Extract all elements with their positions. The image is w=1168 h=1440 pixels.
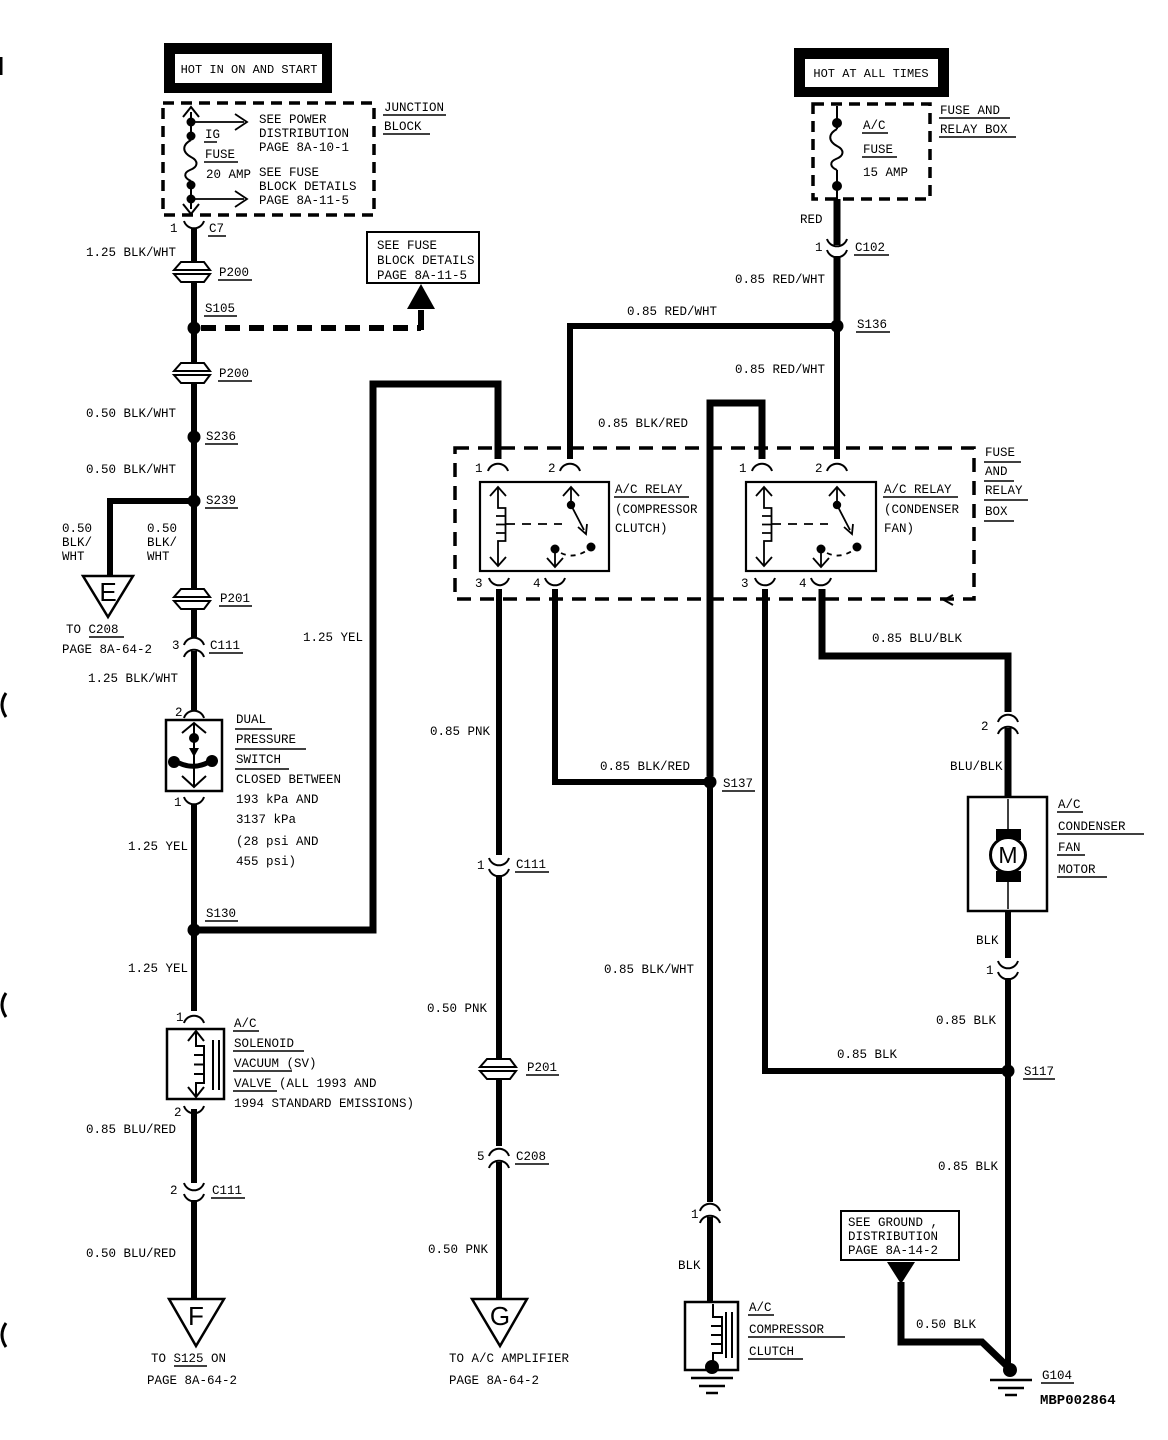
svg-text:A/C: A/C (1058, 798, 1081, 812)
svg-text:A/C RELAY: A/C RELAY (615, 483, 683, 497)
wire fuse to C102 RED (834, 199, 841, 245)
svg-text:PAGE 8A-64-2: PAGE 8A-64-2 (449, 1374, 539, 1388)
svg-text:(COMPRESSOR: (COMPRESSOR (615, 503, 698, 517)
off-page connector E (83, 576, 133, 617)
svg-text:3137 kPa: 3137 kPa (236, 813, 297, 827)
svg-text:PAGE 8A-11-5: PAGE 8A-11-5 (259, 194, 349, 208)
component label A/C RELAY (CONDENSER FAN) (883, 483, 960, 536)
wire C111 to pressure switch 1.25 BLK/WHT (191, 651, 197, 710)
svg-text:1.25 YEL: 1.25 YEL (128, 840, 188, 854)
wire 1.25 BLK/WHT C7 to P200 (191, 229, 197, 264)
A/C relay (compressor clutch) body (480, 482, 609, 571)
svg-text:0.50 BLU/RED: 0.50 BLU/RED (86, 1247, 176, 1261)
svg-text:0.85 RED/WHT: 0.85 RED/WHT (735, 273, 826, 287)
svg-text:SEE POWER: SEE POWER (259, 113, 327, 127)
fan motor connector pin 2 (981, 715, 1018, 734)
A/C relay (condenser fan) body (746, 482, 876, 571)
splice S117 (1002, 1065, 1056, 1080)
reference arrow down (887, 1262, 915, 1284)
wire C111 to F 0.50 BLU/RED (191, 1200, 197, 1301)
svg-text:C111: C111 (212, 1184, 242, 1198)
svg-text:DISTRIBUTION: DISTRIBUTION (848, 1230, 938, 1244)
svg-text:0.50 PNK: 0.50 PNK (427, 1002, 488, 1016)
wire label 0.50 BLK/WHT left (62, 522, 92, 564)
svg-text:C111: C111 (516, 858, 546, 872)
svg-text:RELAY BOX: RELAY BOX (940, 123, 1008, 137)
svg-text:S105: S105 (205, 302, 235, 316)
power label HOT IN ON AND START (164, 43, 332, 93)
svg-text:BLOCK DETAILS: BLOCK DETAILS (377, 254, 475, 268)
svg-text:0.50: 0.50 (147, 522, 177, 536)
A/C solenoid pin 1 (176, 1011, 204, 1025)
A/C solenoid pin 2 (174, 1106, 204, 1120)
svg-text:PRESSURE: PRESSURE (236, 733, 296, 747)
junction block label (383, 101, 446, 134)
svg-text:FUSE AND: FUSE AND (940, 104, 1000, 118)
svg-text:0.85 BLK: 0.85 BLK (936, 1014, 997, 1028)
svg-text:FAN): FAN) (884, 522, 914, 536)
wire C102 to S136 0.85 RED/WHT (834, 256, 841, 326)
svg-text:4: 4 (533, 577, 541, 591)
svg-text:S239: S239 (206, 494, 236, 508)
svg-text:HOT IN ON AND START: HOT IN ON AND START (181, 63, 318, 77)
note SEE POWER DISTRIBUTION PAGE 8A-10-1 (259, 113, 349, 155)
svg-text:S136: S136 (857, 318, 887, 332)
svg-text:0.50 BLK/WHT: 0.50 BLK/WHT (86, 463, 177, 477)
relay U1 pin 1 (475, 462, 508, 476)
svg-text:0.85 PNK: 0.85 PNK (430, 725, 491, 739)
wire S236 to S239 (191, 437, 197, 501)
svg-text:BLK/: BLK/ (147, 536, 177, 550)
wire ground note to G104 0.50 BLK (901, 1282, 1009, 1368)
wire S136 to relay 1 pin 2 0.85 RED/WHT (570, 326, 837, 459)
splice S105 (188, 302, 238, 335)
svg-text:0.85 RED/WHT: 0.85 RED/WHT (735, 363, 826, 377)
fuse A/C 15A element (830, 106, 842, 199)
svg-text:M: M (998, 842, 1017, 868)
svg-text:PAGE 8A-64-2: PAGE 8A-64-2 (147, 1374, 237, 1388)
svg-text:2: 2 (815, 462, 823, 476)
connector C102 pin 1 (815, 239, 889, 257)
svg-text:2: 2 (170, 1184, 178, 1198)
svg-text:2: 2 (175, 706, 183, 720)
svg-text:G: G (490, 1301, 510, 1331)
svg-text:BLK/: BLK/ (62, 536, 92, 550)
component label A/C COMPRESSOR CLUTCH (748, 1301, 845, 1359)
svg-text:0.85 BLU/BLK: 0.85 BLU/BLK (872, 632, 963, 646)
svg-text:P201: P201 (527, 1061, 557, 1075)
svg-text:0.50 BLK: 0.50 BLK (916, 1318, 977, 1332)
svg-text:COMPRESSOR: COMPRESSOR (749, 1323, 825, 1337)
wire P200 to S105 (191, 282, 197, 330)
svg-text:FUSE: FUSE (985, 446, 1015, 460)
fuse and relay box upper (dashed) (813, 104, 930, 199)
A/C compressor clutch (685, 1302, 738, 1374)
svg-text:1994 STANDARD EMISSIONS): 1994 STANDARD EMISSIONS) (234, 1097, 414, 1111)
svg-text:TO S125 ON: TO S125 ON (151, 1352, 226, 1366)
wire S136 to relay 2 pin 2 0.85 RED/WHT (834, 326, 840, 459)
svg-text:1.25 YEL: 1.25 YEL (128, 962, 188, 976)
ground G104 (990, 1363, 1074, 1395)
svg-text:BLK: BLK (678, 1259, 701, 1273)
component label A/C CONDENSER FAN MOTOR (1057, 798, 1144, 877)
svg-text:VACUUM (SV): VACUUM (SV) (234, 1057, 317, 1071)
svg-text:PAGE 8A-14-2: PAGE 8A-14-2 (848, 1244, 938, 1258)
svg-text:3: 3 (741, 577, 749, 591)
dual pressure switch pin 2 (175, 706, 204, 720)
svg-text:1: 1 (170, 222, 178, 236)
svg-text:SEE GROUND ,: SEE GROUND , (848, 1216, 938, 1230)
svg-text:20 AMP: 20 AMP (206, 168, 251, 182)
svg-text:C208: C208 (516, 1150, 546, 1164)
wire P201 to C111 (191, 609, 197, 637)
relay U2 pin 1 (739, 462, 772, 476)
svg-text:1.25 YEL: 1.25 YEL (303, 631, 363, 645)
relay U1 pin 2 (548, 462, 580, 476)
fuse and relay box label (984, 446, 1028, 521)
relay U2 pin 2 (815, 462, 847, 476)
svg-text:0.85 BLK: 0.85 BLK (837, 1048, 898, 1062)
arrow to SEE POWER DISTRIBUTION (195, 114, 247, 130)
wire relay 2 pin 3 to S117 0.85 BLK (765, 589, 1002, 1071)
svg-text:BOX: BOX (985, 505, 1008, 519)
svg-text:A/C RELAY: A/C RELAY (884, 483, 952, 497)
svg-text:0.50 BLK/WHT: 0.50 BLK/WHT (86, 407, 177, 421)
wire fan motor to connector BLK (1005, 911, 1011, 958)
grommet P201 (174, 589, 252, 609)
svg-text:A/C: A/C (234, 1017, 257, 1031)
svg-text:A/C: A/C (749, 1301, 772, 1315)
svg-text:0.85 RED/WHT: 0.85 RED/WHT (627, 305, 718, 319)
svg-text:0.85 BLK/RED: 0.85 BLK/RED (600, 760, 690, 774)
arrow to SEE FUSE BLOCK DETAILS (195, 191, 247, 207)
splice S239 (188, 494, 239, 508)
wire to clutch BLK (707, 1217, 713, 1304)
wire P201 to C208 (496, 1079, 502, 1146)
svg-text:1: 1 (739, 462, 747, 476)
svg-text:0.50 PNK: 0.50 PNK (428, 1243, 489, 1257)
off-page connector F (169, 1299, 224, 1346)
A/C condenser fan motor M1 (968, 797, 1047, 911)
svg-text:G104: G104 (1042, 1369, 1072, 1383)
svg-text:CLUTCH): CLUTCH) (615, 522, 668, 536)
fuse and relay box upper label (939, 104, 1016, 137)
svg-text:1: 1 (691, 1208, 699, 1222)
svg-text:3: 3 (172, 639, 180, 653)
svg-text:VALVE (ALL 1993 AND: VALVE (ALL 1993 AND (234, 1077, 377, 1091)
svg-text:2: 2 (548, 462, 556, 476)
svg-text:1.25 BLK/WHT: 1.25 BLK/WHT (88, 672, 179, 686)
wire branch S130 to relay 1 pin 1 (1.25 YEL bypass) (194, 384, 498, 930)
svg-text:BLOCK: BLOCK (384, 120, 422, 134)
connector C208 pin 5 (477, 1149, 549, 1168)
wire P200 to S236 (191, 383, 197, 437)
relay U1 pin 3 (475, 577, 509, 591)
wire label 0.50 BLK/WHT right (147, 522, 177, 564)
svg-text:SOLENOID: SOLENOID (234, 1037, 294, 1051)
svg-text:PAGE 8A-10-1: PAGE 8A-10-1 (259, 141, 349, 155)
svg-text:TO A/C AMPLIFIER: TO A/C AMPLIFIER (449, 1352, 570, 1366)
wire S130 to solenoid 1.25 YEL (191, 930, 197, 1011)
svg-text:AND: AND (985, 465, 1008, 479)
power label HOT AT ALL TIMES (794, 48, 949, 97)
fuse and relay box edge arrow (944, 595, 953, 605)
svg-text:WHT: WHT (62, 550, 85, 564)
connector C7 pin 1 (170, 221, 226, 236)
wire C208 to G 0.50 PNK (496, 1162, 502, 1301)
svg-text:FUSE: FUSE (205, 148, 235, 162)
svg-text:DUAL: DUAL (236, 713, 266, 727)
svg-text:0.50: 0.50 (62, 522, 92, 536)
edge artifact marks (1, 57, 6, 1347)
svg-text:0.85 BLK: 0.85 BLK (938, 1160, 999, 1174)
svg-text:2: 2 (981, 720, 989, 734)
wire solenoid to C111 0.85 BLU/RED (191, 1109, 197, 1183)
svg-text:HOT AT ALL TIMES: HOT AT ALL TIMES (813, 67, 928, 81)
dual pressure switch (166, 720, 222, 791)
wire C111 to P201 0.50 PNK (496, 875, 502, 1059)
relay U1 pin 4 (533, 577, 565, 591)
svg-text:(28 psi AND: (28 psi AND (236, 835, 319, 849)
svg-text:FUSE: FUSE (863, 143, 893, 157)
fuse value label IG FUSE 20 AMP (204, 128, 251, 182)
svg-text:F: F (188, 1301, 204, 1331)
wire to fan motor BLU/BLK (1005, 728, 1012, 799)
svg-text:15 AMP: 15 AMP (863, 166, 908, 180)
wire branch S239 to E connector (110, 501, 194, 576)
svg-text:JUNCTION: JUNCTION (384, 101, 444, 115)
component label DUAL PRESSURE SWITCH (235, 713, 341, 869)
relay U2 pin 3 (741, 577, 775, 591)
dashed reference line S105 to note (201, 310, 421, 330)
svg-text:C7: C7 (209, 222, 224, 236)
connector C111 pin 3 (172, 638, 243, 657)
svg-text:(CONDENSER: (CONDENSER (884, 503, 960, 517)
svg-text:CLOSED BETWEEN: CLOSED BETWEEN (236, 773, 341, 787)
grommet P200 lower (174, 363, 252, 383)
off-page connector G (472, 1299, 527, 1346)
svg-text:FAN: FAN (1058, 841, 1081, 855)
svg-text:SWITCH: SWITCH (236, 753, 281, 767)
note SEE FUSE BLOCK DETAILS PAGE 8A-11-5 (259, 166, 357, 208)
svg-text:PAGE 8A-11-5: PAGE 8A-11-5 (377, 269, 467, 283)
wire pressure switch to S130 1.25 YEL (191, 804, 197, 930)
svg-text:C102: C102 (855, 241, 885, 255)
component label A/C SOLENOID VACUUM VALVE (233, 1017, 414, 1111)
grommet P200 (174, 262, 252, 282)
fuse and relay box (dashed) (455, 448, 974, 599)
wire S105 to P200 (191, 328, 197, 364)
wire relay 1 pin 4 to S137 0.85 BLK/RED (555, 589, 706, 782)
relay U2 pin 4 (799, 577, 831, 591)
fan motor connector pin 1 (986, 961, 1018, 979)
svg-text:1: 1 (174, 796, 182, 810)
svg-text:193 kPa AND: 193 kPa AND (236, 793, 319, 807)
svg-text:P201: P201 (220, 592, 250, 606)
svg-text:1: 1 (815, 241, 823, 255)
svg-text:S117: S117 (1024, 1065, 1054, 1079)
svg-text:1.25 BLK/WHT: 1.25 BLK/WHT (86, 246, 177, 260)
svg-text:CONDENSER: CONDENSER (1058, 820, 1126, 834)
svg-text:P200: P200 (219, 266, 249, 280)
svg-text:1: 1 (176, 1011, 184, 1025)
svg-text:2: 2 (174, 1106, 182, 1120)
reference arrow up (407, 284, 435, 309)
fuse value label A/C FUSE 15 AMP (862, 119, 908, 180)
wire S239 to P201 (191, 501, 197, 590)
svg-text:S236: S236 (206, 430, 236, 444)
svg-text:BLK: BLK (976, 934, 999, 948)
svg-text:MBP002864: MBP002864 (1040, 1393, 1116, 1409)
clutch connector pin 1 (691, 1204, 720, 1223)
svg-text:1: 1 (986, 964, 994, 978)
wire relay 2 pin 4 to fan motor 0.85 BLU/BLK (822, 589, 1008, 712)
svg-text:S137: S137 (723, 777, 753, 791)
svg-text:C111: C111 (210, 639, 240, 653)
note TO C208 PAGE 8A-64-2 (62, 623, 152, 657)
junction block box (163, 103, 374, 215)
svg-text:BLU/BLK: BLU/BLK (950, 760, 1003, 774)
connector C111 pin 2 (170, 1183, 245, 1201)
svg-text:1: 1 (475, 462, 483, 476)
wire S137 to clutch 0.85 BLK/WHT (707, 782, 713, 1202)
wire relay 2 pin 1 riser 0.85 BLK/RED (710, 403, 762, 776)
component label A/C RELAY (COMPRESSOR CLUTCH) (614, 483, 698, 536)
svg-text:SEE FUSE: SEE FUSE (377, 239, 437, 253)
svg-text:DISTRIBUTION: DISTRIBUTION (259, 127, 349, 141)
splice S137 (704, 776, 756, 792)
note box SEE FUSE BLOCK DETAILS PAGE 8A-11-5 (367, 232, 479, 283)
svg-text:A/C: A/C (863, 119, 886, 133)
svg-text:0.85 BLK/WHT: 0.85 BLK/WHT (604, 963, 695, 977)
note TO A/C AMPLIFIER PAGE 8A-64-2 (449, 1352, 570, 1388)
wire connector to S117 0.85 BLK (1005, 978, 1011, 1071)
splice S236 (188, 430, 239, 444)
note TO S125 ON PAGE 8A-64-2 (147, 1352, 237, 1388)
svg-text:5: 5 (477, 1150, 485, 1164)
splice S130 (188, 907, 239, 937)
svg-text:RED: RED (800, 213, 823, 227)
splice S136 (831, 318, 891, 333)
connector C111 pin 1 (477, 858, 549, 876)
fuse terminal dots (832, 118, 842, 191)
wire S117 to G104 0.85 BLK (1005, 1071, 1011, 1366)
svg-text:3: 3 (475, 577, 483, 591)
svg-text:455 psi): 455 psi) (236, 855, 296, 869)
grommet P201 mid (480, 1059, 559, 1079)
svg-text:IG: IG (205, 128, 220, 142)
dual pressure switch pin 1 (174, 796, 204, 810)
svg-text:CLUTCH: CLUTCH (749, 1345, 794, 1359)
note box SEE GROUND DISTRIBUTION PAGE 8A-14-2 (841, 1211, 959, 1260)
svg-text:SEE FUSE: SEE FUSE (259, 166, 319, 180)
svg-text:RELAY: RELAY (985, 484, 1023, 498)
svg-text:BLOCK DETAILS: BLOCK DETAILS (259, 180, 357, 194)
A/C solenoid vacuum valve (167, 1029, 224, 1099)
fuse terminal dots (187, 118, 196, 204)
svg-text:S130: S130 (206, 907, 236, 921)
svg-text:0.85 BLU/RED: 0.85 BLU/RED (86, 1123, 176, 1137)
svg-text:TO C208: TO C208 (66, 623, 119, 637)
svg-text:MOTOR: MOTOR (1058, 863, 1096, 877)
svg-text:4: 4 (799, 577, 807, 591)
svg-text:PAGE 8A-64-2: PAGE 8A-64-2 (62, 643, 152, 657)
ground at clutch (691, 1378, 733, 1393)
wire relay 1 pin 3 to C111 0.85 PNK (496, 589, 502, 855)
svg-text:E: E (99, 577, 116, 607)
svg-text:0.85 BLK/RED: 0.85 BLK/RED (598, 417, 688, 431)
svg-text:P200: P200 (219, 367, 249, 381)
fuse IG 20A element (183, 107, 199, 214)
svg-text:WHT: WHT (147, 550, 170, 564)
svg-text:1: 1 (477, 859, 485, 873)
